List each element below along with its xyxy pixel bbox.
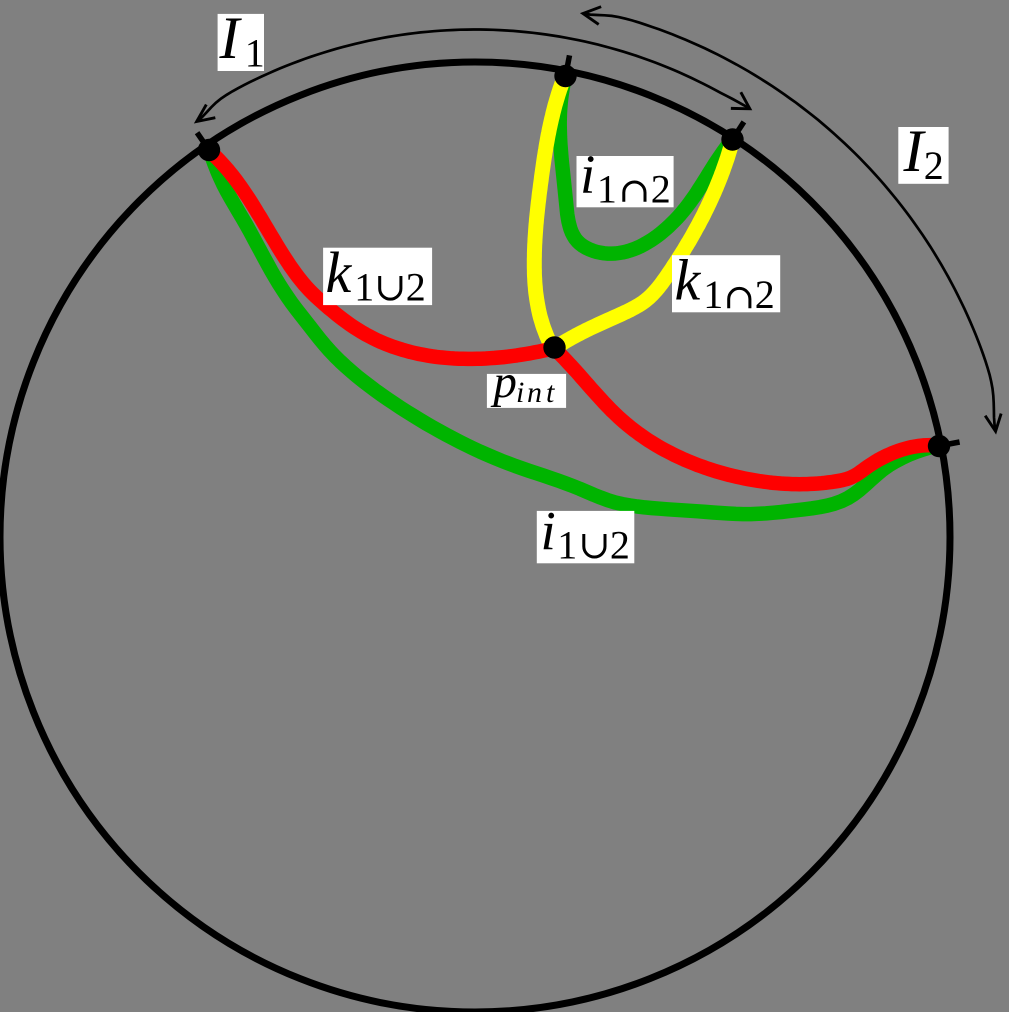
boundary point b2 [928, 435, 950, 457]
svg-text:I: I [219, 5, 243, 71]
boundary point a1 [198, 139, 220, 161]
k_{1 union 2} red segment from p_int to b2 [553, 348, 938, 484]
svg-text:i: i [580, 144, 595, 205]
svg-text:n: n [527, 376, 542, 409]
arrowhead I1 right end [732, 94, 750, 109]
k_{1 union 2} red segment from a1 to p_int [209, 150, 556, 359]
svg-text:t: t [546, 376, 555, 409]
outward tick at boundary point a2 [567, 55, 570, 71]
arrowhead I2 top end [583, 7, 600, 23]
label I_1 [218, 5, 265, 75]
intersection point p_int of the two geodesics [543, 336, 565, 358]
interval I1 indicator arc (thin, double-headed) [197, 30, 750, 122]
svg-text:1: 1 [703, 272, 723, 317]
outward tick at boundary point b2 [944, 442, 960, 445]
svg-text:2: 2 [610, 523, 630, 568]
geodesic i_{1 cap 2} green arc from a2 to b1 [560, 76, 733, 254]
svg-text:k: k [675, 248, 702, 313]
svg-text:2: 2 [651, 166, 671, 211]
label k_{1 union 2} [323, 240, 432, 310]
svg-text:p: p [490, 356, 517, 408]
svg-text:2: 2 [406, 265, 426, 310]
svg-text:1: 1 [557, 523, 577, 568]
k_{1 cap 2} yellow segment from p_int up to b1 [534, 76, 565, 349]
label i_{1 union 2} [537, 500, 635, 568]
svg-text:i: i [516, 376, 524, 409]
svg-text:1: 1 [597, 166, 617, 211]
svg-text:k: k [326, 240, 353, 305]
arrowhead I2 bottom end [986, 415, 1001, 431]
k_{1 cap 2} yellow segment from a2 down to p_int [555, 140, 733, 349]
geodesic i_{1 union 2} green arc from a1 to b2 [209, 150, 938, 514]
arrowhead I1 left end [197, 106, 214, 122]
svg-text:2: 2 [924, 143, 944, 188]
outward tick at boundary point a1 [197, 133, 206, 146]
svg-text:2: 2 [755, 272, 775, 317]
boundary point a2 [554, 65, 576, 87]
label i_{1 cap 2} [577, 144, 674, 212]
interval I2 indicator arc (thin, double-headed) [583, 14, 995, 432]
svg-text:1: 1 [245, 31, 265, 76]
label p_int [487, 356, 566, 409]
boundary point b1 [721, 128, 743, 150]
label I_2 [898, 118, 948, 188]
svg-text:i: i [541, 500, 556, 561]
outward tick at boundary point b1 [735, 122, 744, 135]
label k_{1 cap 2} [672, 248, 780, 318]
svg-text:1: 1 [354, 265, 374, 310]
